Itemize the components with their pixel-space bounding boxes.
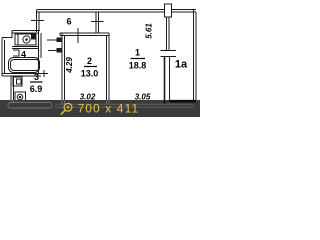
svg-text:1a: 1a — [175, 59, 188, 71]
svg-text:2: 2 — [87, 56, 92, 66]
svg-text:18.8: 18.8 — [129, 61, 147, 71]
svg-text:6: 6 — [66, 17, 71, 27]
svg-text:4: 4 — [21, 50, 26, 60]
svg-text:1: 1 — [135, 48, 140, 58]
svg-text:4.29: 4.29 — [65, 57, 74, 74]
svg-text:5.61: 5.61 — [145, 23, 154, 39]
svg-text:6.9: 6.9 — [30, 84, 43, 94]
svg-text:700 x 411: 700 x 411 — [78, 102, 140, 116]
svg-text:13.0: 13.0 — [81, 69, 99, 79]
svg-text:3: 3 — [34, 72, 39, 82]
